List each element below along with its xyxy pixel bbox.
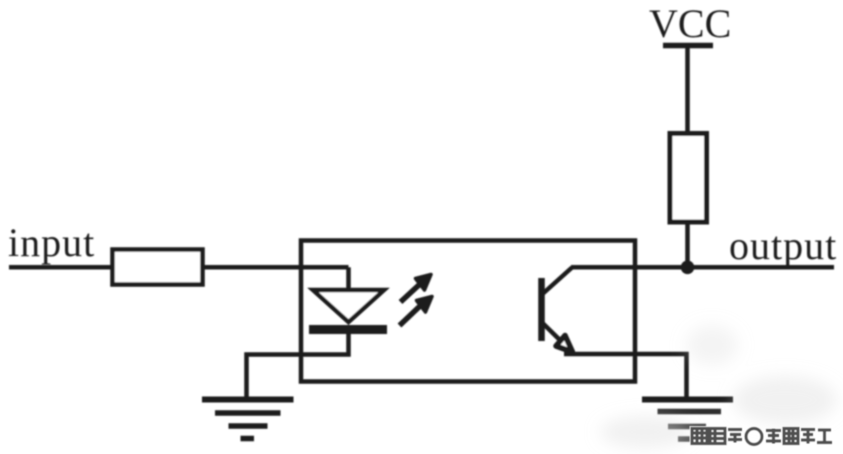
LED D1 cathode bar [309, 325, 387, 334]
wire LED anode drop [346, 267, 351, 291]
VCC supply bar [663, 43, 713, 49]
wire VCC bar to resistor R2 [685, 46, 690, 137]
svg-text:output: output [729, 223, 837, 268]
wire R1 to LED anode [203, 265, 349, 270]
svg-text:VCC: VCC [649, 1, 731, 46]
wire output rail [571, 265, 834, 270]
background smudges [600, 325, 837, 448]
LED light arrow upper [401, 275, 432, 303]
LED D1 triangle [313, 290, 384, 322]
svg-text:input: input [8, 220, 95, 265]
wire R2 to output node [685, 222, 690, 267]
phototransistor Q1 base bar [538, 278, 545, 341]
watermark sohu badge [692, 429, 832, 445]
LED light arrow lower [400, 297, 433, 326]
phototransistor Q1 collector lead [543, 268, 572, 294]
ground output side [642, 400, 733, 440]
wire emitter to ground [564, 354, 687, 399]
phototransistor Q1 emitter lead [543, 324, 566, 347]
optocoupler U1 body [301, 241, 635, 382]
wire LED cathode to ground [247, 329, 349, 399]
phototransistor Q1 emitter arrowhead [556, 336, 573, 353]
node output junction [681, 261, 695, 275]
ground input side [202, 400, 294, 439]
wire input lead [9, 265, 113, 270]
resistor R2 [670, 134, 707, 223]
resistor R1 [113, 250, 203, 285]
